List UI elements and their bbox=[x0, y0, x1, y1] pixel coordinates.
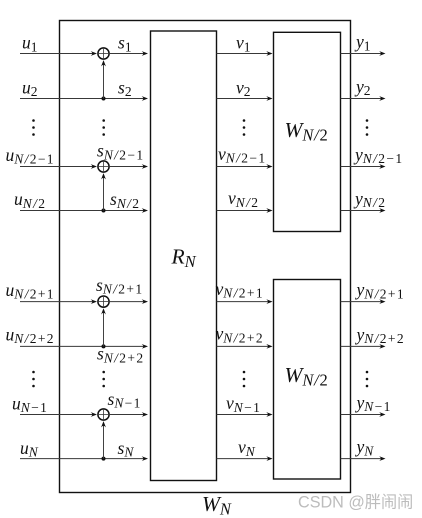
wire uN / sN to R_N bbox=[20, 456, 148, 461]
wire vN/2+2 R_N to W_N/2 bbox=[217, 344, 273, 349]
wire uN/2+2 / sN/2+2 to R_N bbox=[20, 344, 148, 349]
ellipsis top y column bbox=[366, 119, 369, 136]
junction dot on s2 bbox=[102, 97, 106, 101]
outer box W_N bbox=[60, 21, 351, 493]
ellipsis top s column bbox=[102, 119, 105, 136]
wire uN/2+1 input bbox=[20, 299, 97, 304]
block W_N/2 bottom bbox=[274, 280, 341, 480]
wire yN output bbox=[341, 456, 386, 461]
wire branch u2 up to adder bbox=[101, 60, 106, 98]
wire branch uN up to adder bbox=[101, 421, 106, 459]
ellipsis bottom v column bbox=[243, 371, 246, 388]
wire y1 output bbox=[341, 51, 386, 56]
wire yN-1 output bbox=[341, 412, 386, 417]
wire y2 output bbox=[341, 96, 386, 101]
wire v1 R_N to W_N/2 bbox=[217, 51, 273, 56]
wire yN/2 output bbox=[341, 208, 386, 213]
adder on row sN-1 bbox=[98, 409, 109, 420]
adder on row sN/2-1 bbox=[98, 161, 109, 172]
wire yN/2+2 output bbox=[341, 344, 386, 349]
wire v2 R_N to W_N/2 bbox=[217, 96, 273, 101]
wire uN-1 input bbox=[20, 412, 97, 417]
wire vN/2-1 R_N to W_N/2 bbox=[217, 164, 273, 169]
wire yN/2+1 output bbox=[341, 299, 386, 304]
wire sN/2+1 to R_N bbox=[110, 299, 148, 304]
wire branch uN/2 up to adder bbox=[101, 173, 106, 210]
wire vN-1 R_N to W_N/2 bbox=[217, 412, 273, 417]
adder on row s1 bbox=[98, 48, 109, 59]
wire uN/2 / sN/2 to R_N bbox=[20, 208, 148, 213]
wire vN/2 R_N to W_N/2 bbox=[217, 208, 273, 213]
ellipsis bottom y column bbox=[366, 371, 369, 388]
wire u1 input bbox=[20, 51, 97, 56]
wire vN R_N to W_N/2 bbox=[217, 456, 273, 461]
junction dot on sN bbox=[102, 457, 106, 461]
junction dot on sN/2+2 bbox=[102, 344, 106, 348]
wire s1 to R_N bbox=[110, 51, 148, 56]
ellipsis top u column bbox=[32, 119, 35, 136]
block R_N bbox=[151, 31, 217, 481]
ellipsis bottom s column bbox=[102, 371, 105, 388]
wire sN-1 to R_N bbox=[110, 412, 148, 417]
ellipsis top v column bbox=[243, 119, 246, 136]
adder on row sN/2+1 bbox=[98, 296, 109, 307]
junction dot on sN/2 bbox=[102, 209, 106, 213]
svg-text:CSDN @胖闹闹: CSDN @胖闹闹 bbox=[298, 494, 413, 512]
wire u2 / s2 to R_N bbox=[20, 96, 148, 101]
block W_N/2 top bbox=[274, 32, 341, 231]
ellipsis bottom u column bbox=[32, 371, 35, 388]
wire vN/2+1 R_N to W_N/2 bbox=[217, 299, 273, 304]
wire uN/2-1 input bbox=[20, 164, 97, 169]
wire yN/2-1 output bbox=[341, 164, 386, 169]
wire sN/2-1 to R_N bbox=[110, 164, 148, 169]
wire branch uN/2+2 up to adder bbox=[101, 308, 106, 346]
